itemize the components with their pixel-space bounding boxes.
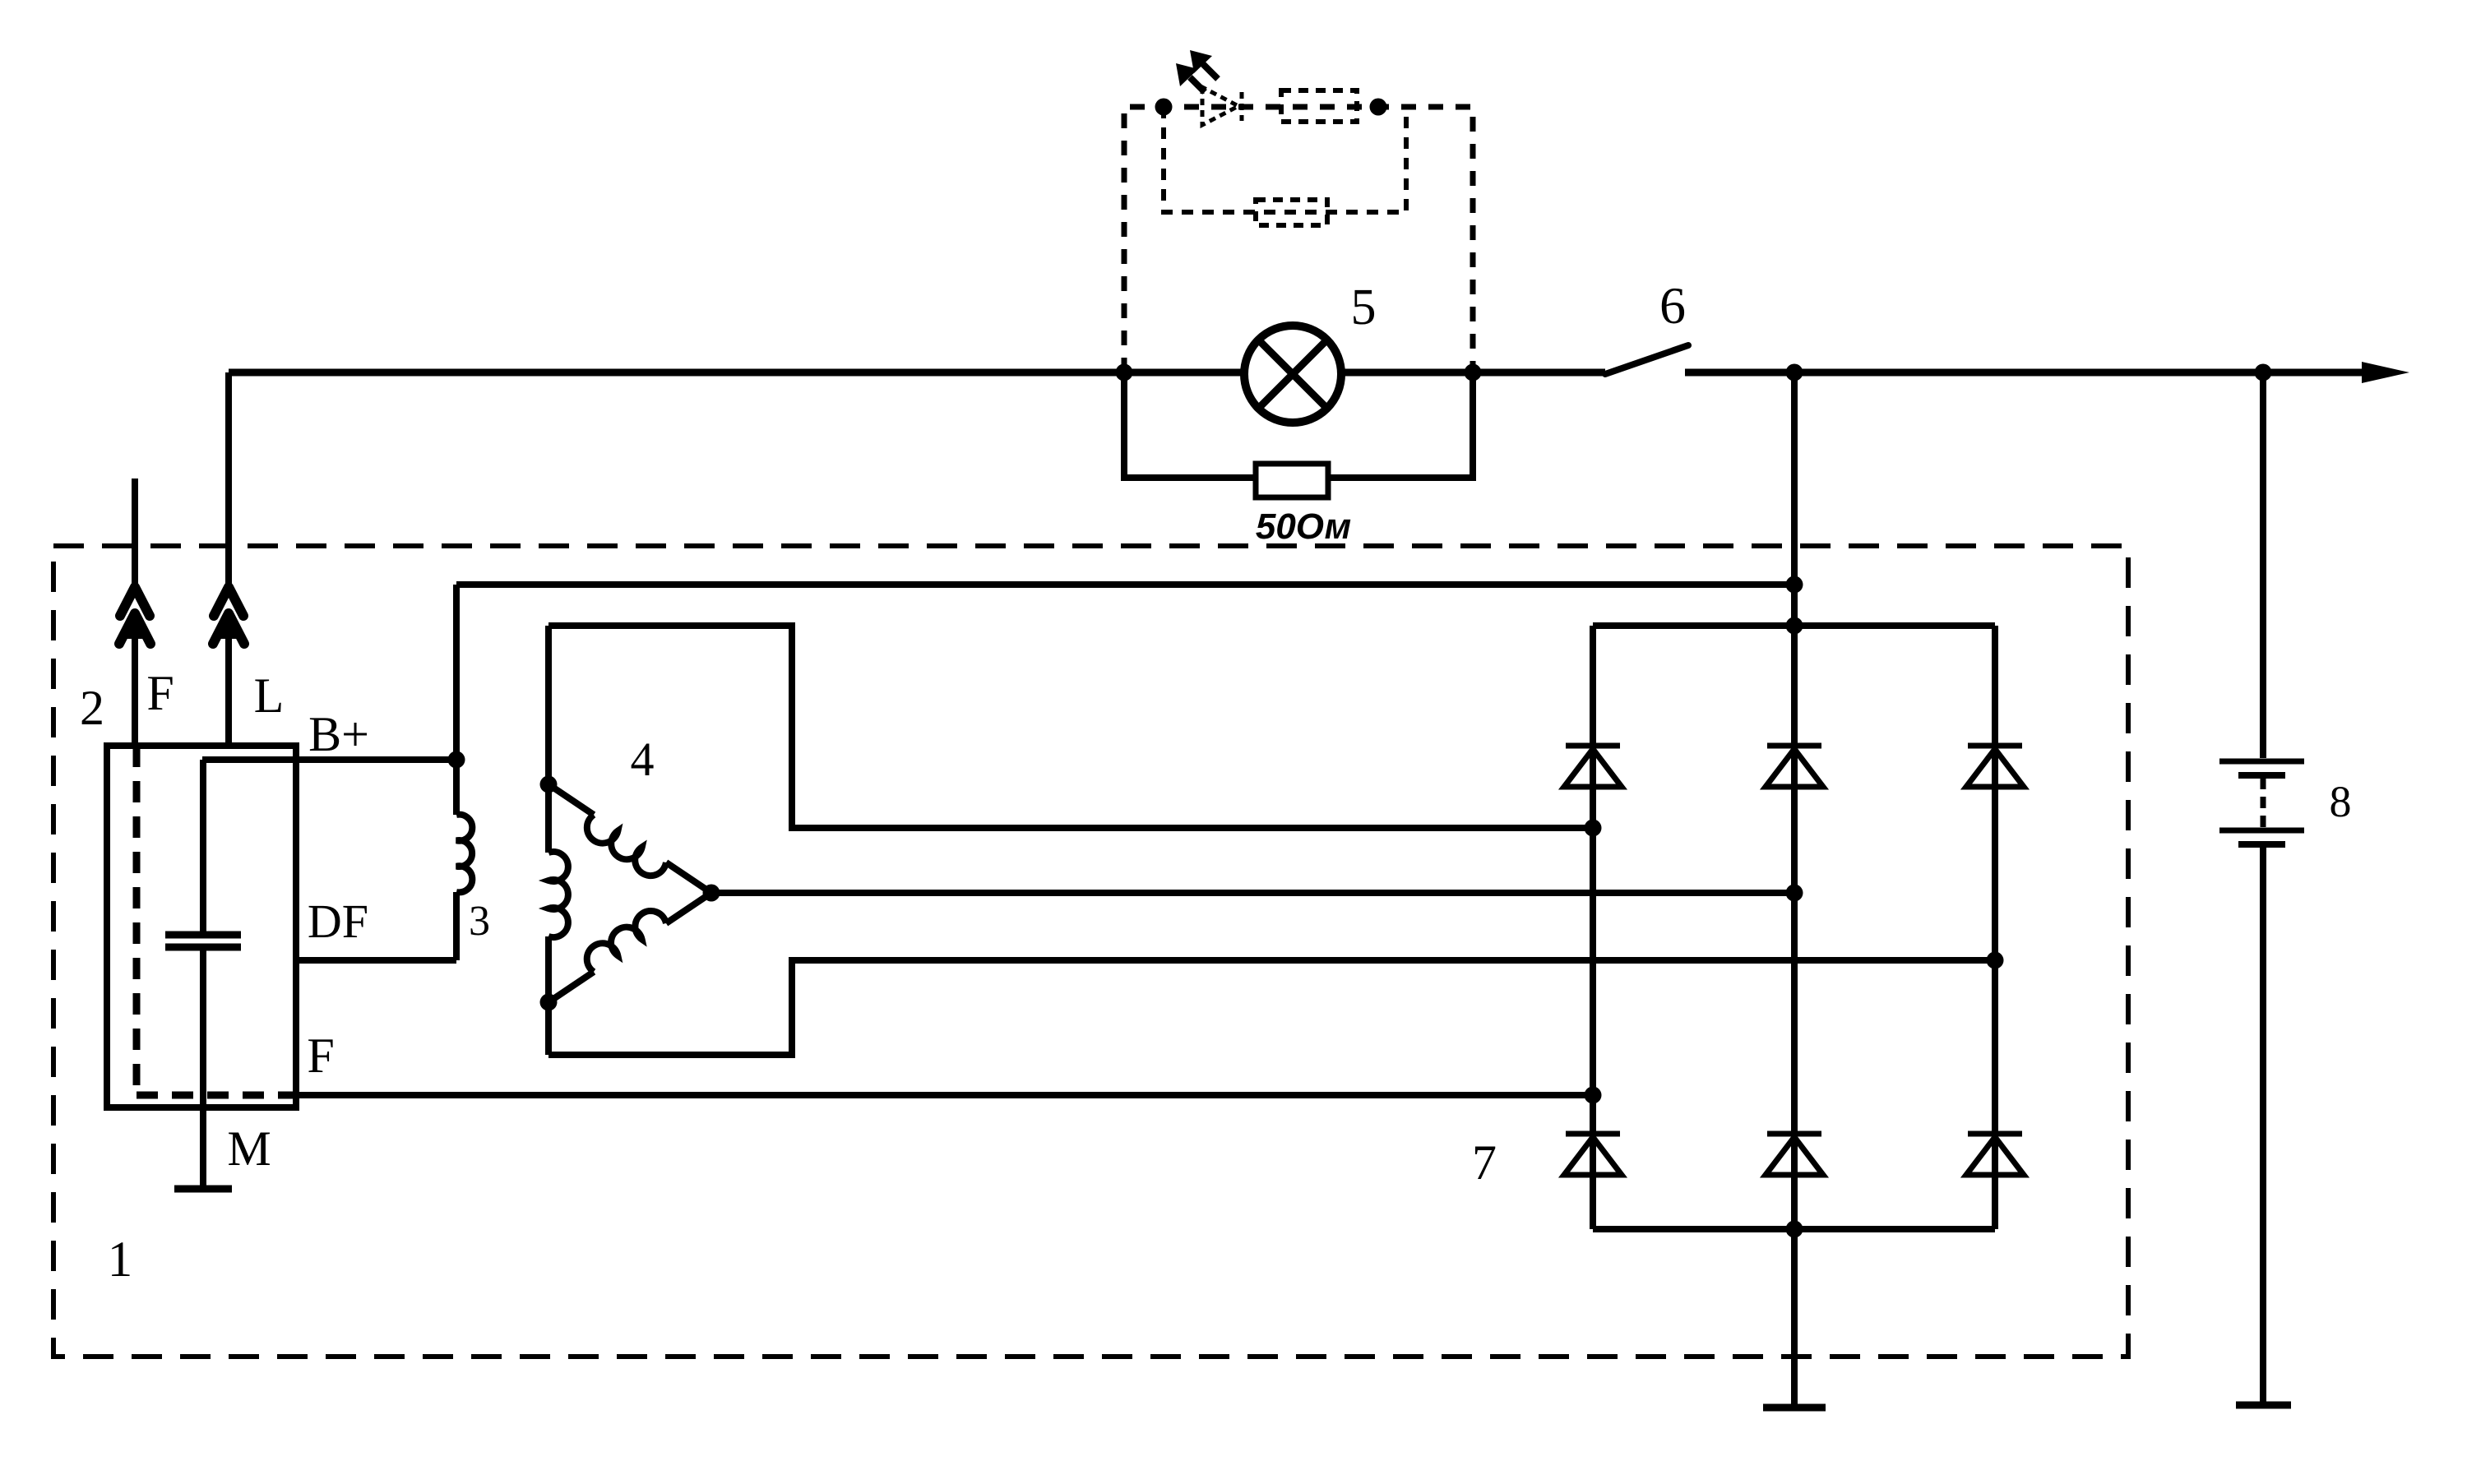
svg-text:L: L	[254, 668, 285, 723]
svg-text:5: 5	[1351, 280, 1377, 335]
svg-text:50Ом: 50Ом	[1256, 506, 1351, 547]
svg-text:8: 8	[2330, 777, 2352, 826]
svg-text:DF: DF	[308, 895, 368, 948]
svg-text:7: 7	[1472, 1135, 1497, 1190]
svg-text:6: 6	[1659, 276, 1686, 335]
svg-text:F: F	[307, 1029, 334, 1083]
svg-text:B+: B+	[308, 707, 369, 761]
svg-text:M: M	[227, 1121, 271, 1176]
svg-text:4: 4	[631, 733, 655, 786]
svg-text:1: 1	[108, 1232, 133, 1288]
svg-text:F: F	[146, 666, 174, 720]
svg-text:3: 3	[469, 898, 490, 945]
svg-text:2: 2	[80, 681, 104, 735]
